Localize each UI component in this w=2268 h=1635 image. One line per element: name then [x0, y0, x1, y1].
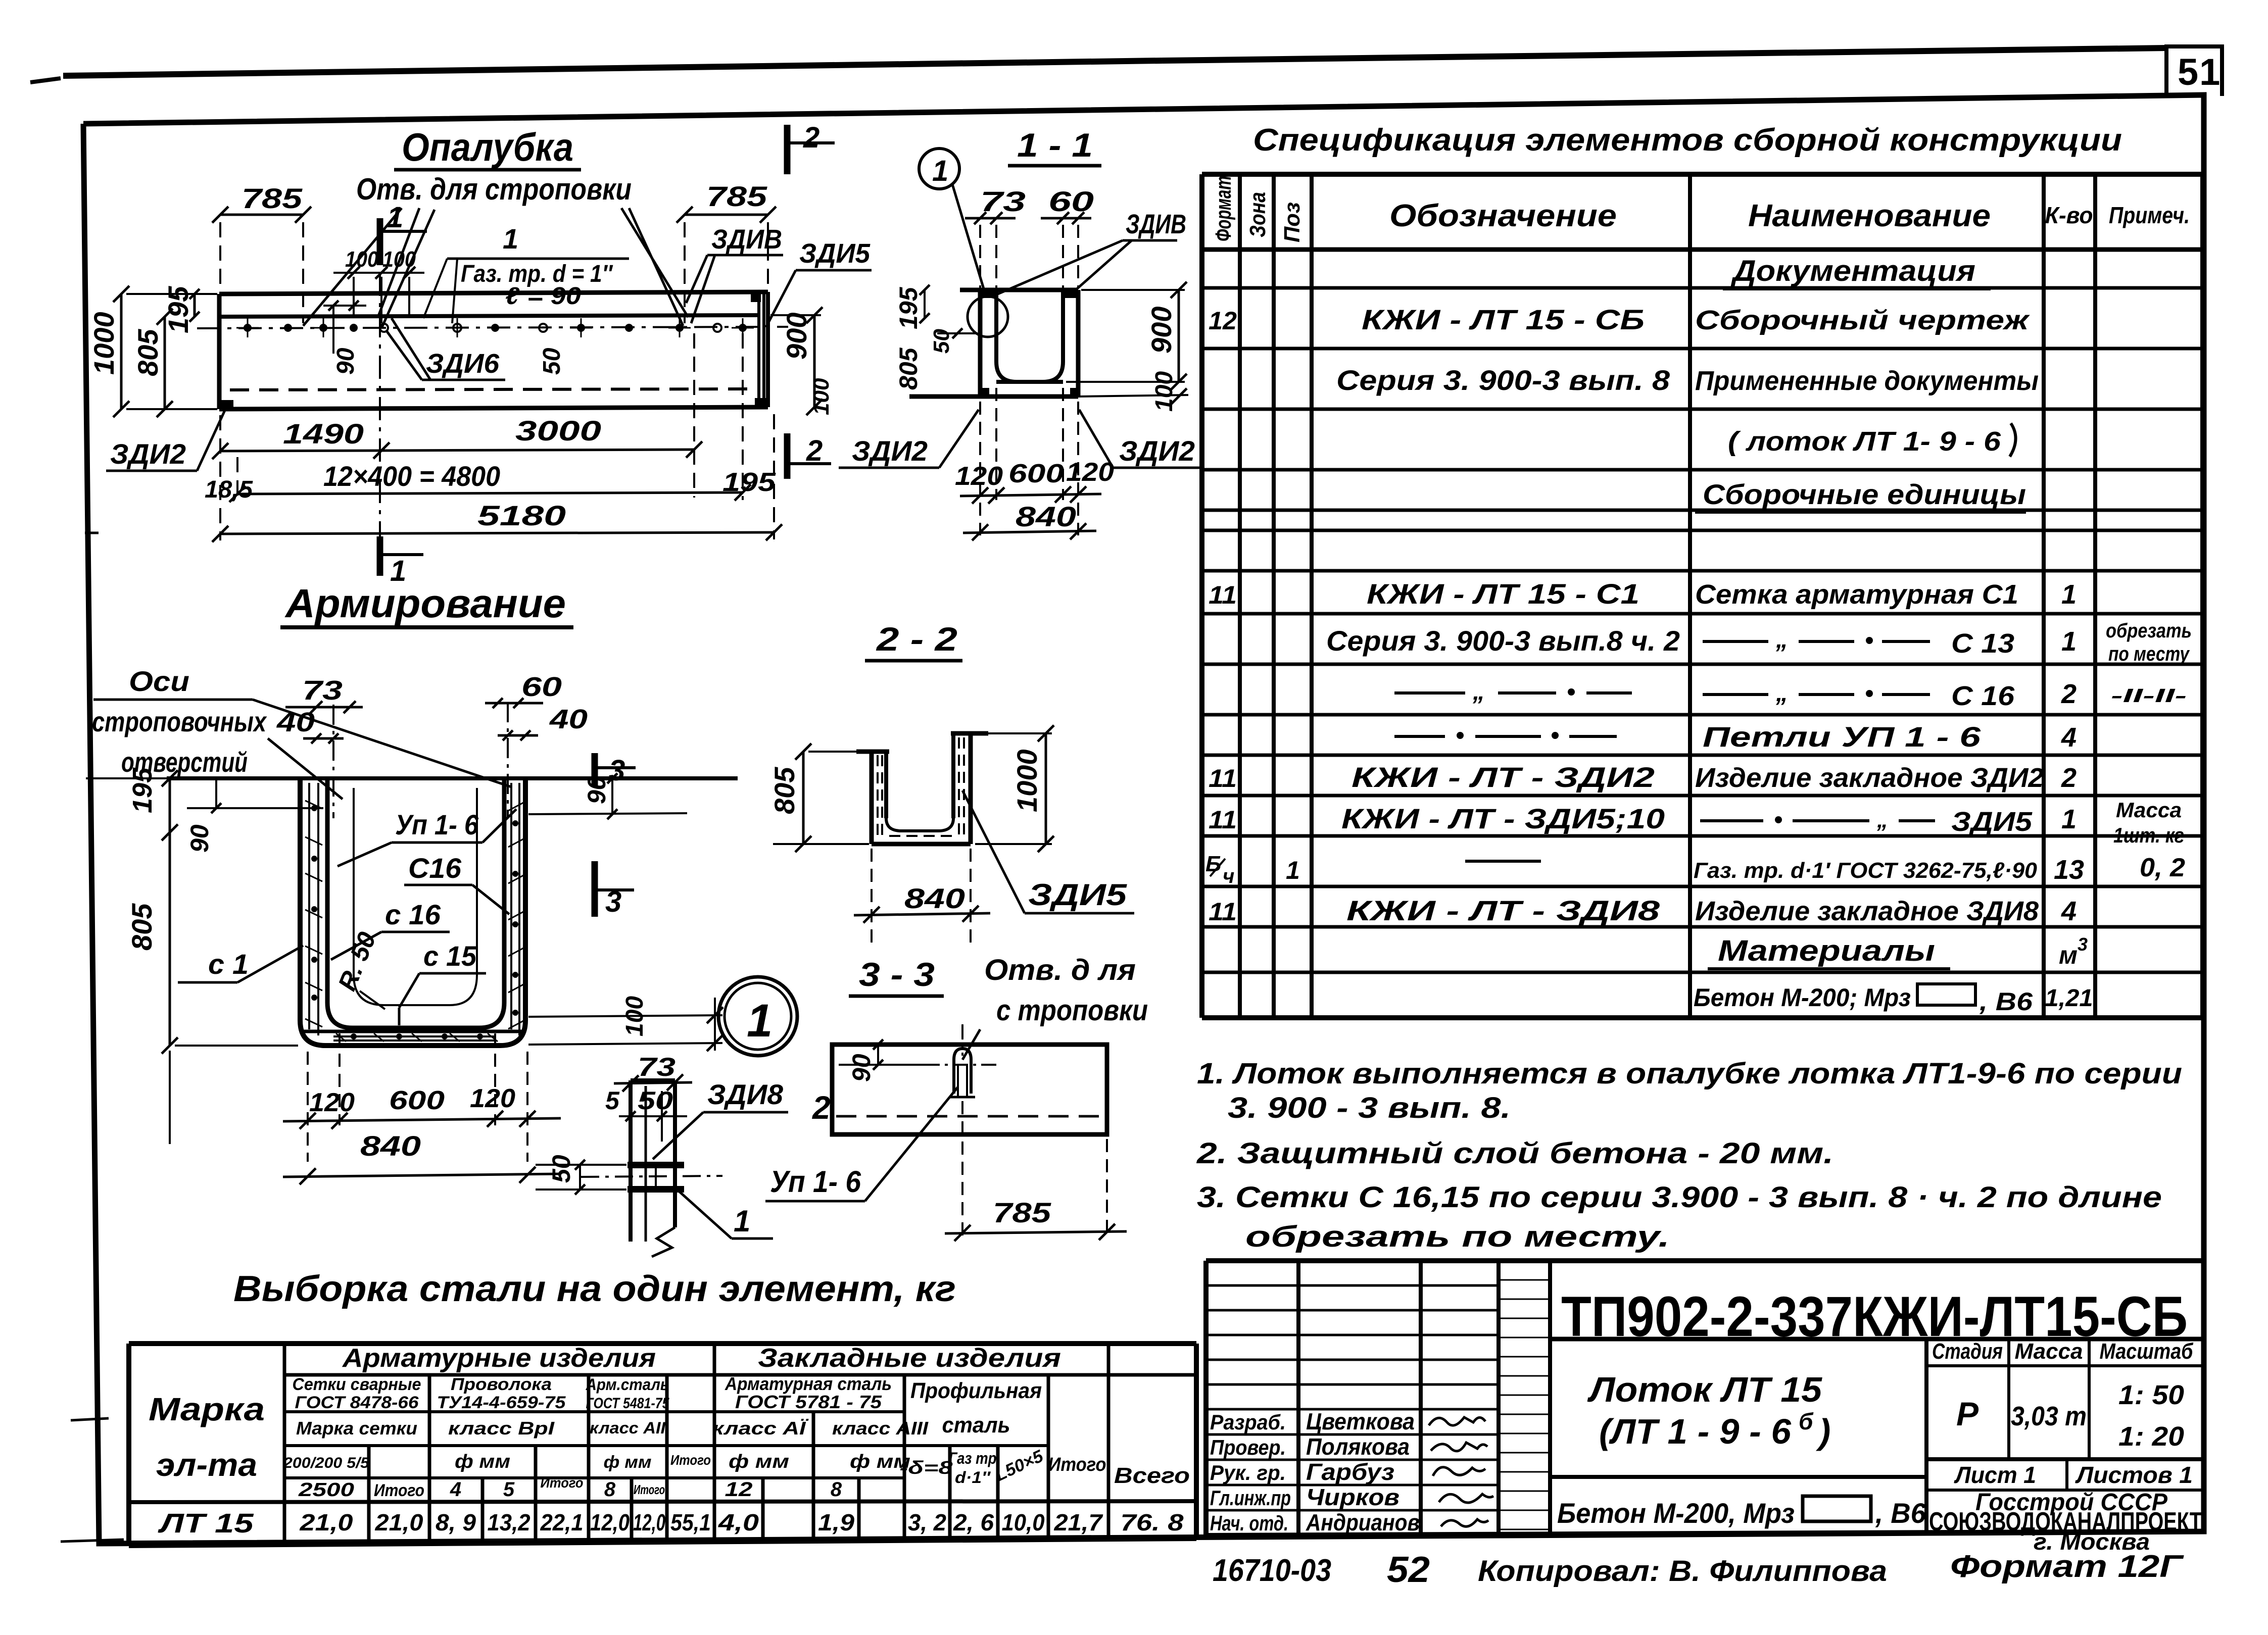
svg-text:11: 11 [1209, 581, 1237, 609]
label С16 with leader (arm) [404, 852, 509, 914]
svg-text:11: 11 [1209, 898, 1237, 926]
svg-text:1: 1 [387, 201, 403, 234]
embedded plate mark (right bottom of beam) [755, 398, 766, 407]
spec table column headers [1211, 176, 2190, 242]
svg-text:10,0: 10,0 [1002, 1509, 1045, 1535]
svg-text:Примененные документы: Примененные документы [1695, 366, 2039, 396]
svg-text:13,2: 13,2 [488, 1509, 530, 1535]
1-1 dimension 840 [963, 501, 1096, 540]
svg-text:Газ тр: Газ тр [949, 1449, 997, 1467]
small dim 50 (rotated, mid beam) [539, 348, 565, 375]
svg-text:2: 2 [2061, 679, 2077, 709]
svg-text:13: 13 [2054, 855, 2084, 885]
svg-text:Поз: Поз [1280, 202, 1305, 242]
steel table: sub headers row4 [283, 1446, 1190, 1488]
label ЗДИ2 left with leader (1-1) [839, 410, 979, 468]
svg-text:21,7: 21,7 [1053, 1509, 1103, 1535]
svg-text:12: 12 [1209, 307, 1237, 335]
svg-text:ЗДИ5: ЗДИ5 [1028, 878, 1128, 912]
svg-text:2 - 2: 2 - 2 [876, 620, 958, 658]
svg-text:Выборка стали на один элем: Выборка стали на один элемент, кг [233, 1269, 956, 1309]
svg-text:Р: Р [1956, 1395, 1979, 1432]
svg-text:1: 1 [503, 223, 518, 255]
svg-text:Всего: Всего [1114, 1463, 1190, 1488]
svg-text:Чирков: Чирков [1306, 1484, 1400, 1510]
dimension 60 (arm top right) [485, 672, 562, 708]
label R50 (arm) [332, 928, 385, 1009]
label ЗДИВ with two long leaders (1-1) [998, 209, 1186, 294]
svg-text:90: 90 [185, 824, 214, 853]
svg-text:51: 51 [2178, 51, 2221, 93]
svg-text:ЗДИ6: ЗДИ6 [426, 349, 500, 379]
svg-text:1,21: 1,21 [2045, 985, 2093, 1012]
svg-text:Формат 12Г: Формат 12Г [1950, 1549, 2185, 1584]
1-1 section outline (U channel) [909, 290, 1188, 397]
svg-text:ЗДИВ: ЗДИВ [1126, 209, 1186, 239]
svg-text:Изделие закладное ЗДИ8: Изделие закладное ЗДИ8 [1695, 896, 2039, 926]
svg-text:50: 50 [539, 348, 565, 375]
svg-text:195: 195 [894, 286, 923, 329]
section mark 3 (upper) [595, 753, 636, 787]
svg-text:Цветкова: Цветкова [1306, 1408, 1415, 1434]
svg-text:22,1: 22,1 [540, 1509, 584, 1535]
spec row: Материалы (underlined) м3 [1708, 934, 2088, 969]
svg-text:класс АЇ: класс АЇ [712, 1418, 809, 1439]
left vertical dimension 1000 [88, 286, 217, 417]
svg-text:840: 840 [904, 882, 965, 914]
svg-text:900: 900 [781, 313, 812, 360]
svg-text:1: 20: 1: 20 [2118, 1421, 2184, 1452]
svg-text:Андрианов: Андрианов [1306, 1509, 1420, 1535]
dimension 785 (right top) [677, 180, 776, 323]
svg-text:по месту: по месту [2108, 643, 2190, 665]
svg-text:ЗДИ2: ЗДИ2 [852, 435, 928, 467]
svg-text:Уп 1- 6: Уп 1- 6 [395, 809, 479, 840]
detail 1: centre line [581, 1176, 722, 1177]
svg-text:1,9: 1,9 [818, 1509, 854, 1535]
svg-text:С16: С16 [408, 852, 462, 884]
svg-text:Арм.сталь: Арм.сталь [586, 1375, 669, 1394]
detail balloon 1 (double circle) [718, 977, 797, 1056]
3-3 dim 90 [839, 1039, 935, 1082]
svg-text:1: 1 [1286, 856, 1300, 884]
svg-text:класс АІІ: класс АІІ [590, 1419, 666, 1437]
svg-text:ф мм: ф мм [604, 1453, 652, 1472]
svg-text:120: 120 [1066, 458, 1114, 487]
title block grid [1206, 1261, 2204, 1535]
2-2 dimension 840 [854, 849, 990, 945]
svg-text:805: 805 [768, 767, 800, 814]
svg-text:Итого: Итого [670, 1452, 711, 1468]
svg-text:-II-II-: -II-II- [2111, 685, 2187, 707]
svg-text:2, 6: 2, 6 [953, 1509, 994, 1535]
steel table: sub headers row3 [296, 1418, 929, 1439]
svg-text:К-во: К-во [2045, 202, 2093, 228]
svg-text:5: 5 [605, 1086, 620, 1115]
reinforcement section top edge line [167, 776, 738, 780]
svg-text:Арматурная сталь: Арматурная сталь [725, 1373, 892, 1394]
svg-text:ЛТ 15: ЛТ 15 [157, 1508, 254, 1539]
arm left dimension 195 [86, 767, 178, 840]
2-2 mesh dashed lines [878, 737, 964, 838]
steel table: sub headers row2 [293, 1373, 1042, 1438]
svg-text:„: „ [1775, 680, 1788, 707]
label Уп1-6 with leader (3-3) [765, 1087, 958, 1201]
label: pipe note 1 / Газ.тр.d=1 / l=90 [423, 223, 629, 323]
svg-text:16710-03: 16710-03 [1213, 1553, 1331, 1588]
svg-text:Итого: Итого [634, 1482, 665, 1497]
svg-text:Провер.: Провер. [1210, 1435, 1286, 1459]
svg-text:Профильная: Профильная [910, 1378, 1042, 1403]
svg-text:600: 600 [389, 1086, 445, 1115]
left vertical dimension 805 [132, 309, 173, 417]
svg-text:(ЛТ 1 - 9 - 6: (ЛТ 1 - 9 - 6 [1599, 1412, 1792, 1451]
svg-text:1. Лоток выполняется в опалу: 1. Лоток выполняется в опалубке лотка ЛТ… [1197, 1057, 2182, 1090]
small dim 90 (rotated, mid beam) [323, 283, 366, 375]
svg-text:Сетки сварные: Сетки сварные [293, 1375, 421, 1394]
dimension 60 (1-1 top right) [1041, 185, 1094, 288]
svg-text:Лист 1: Лист 1 [1954, 1462, 2036, 1488]
detail 1: leader 1 (bottom) [677, 1190, 773, 1238]
svg-text:3: 3 [605, 885, 621, 918]
1-1 right vertical dimension 100 [1151, 371, 1187, 412]
mesh hatch ticks [305, 801, 523, 1042]
svg-text:ТУ14-4-659-75: ТУ14-4-659-75 [437, 1393, 566, 1412]
svg-text:м: м [2059, 941, 2078, 969]
page number box 51 [2166, 46, 2222, 96]
svg-text:Оси: Оси [129, 665, 189, 697]
svg-text:Рук. гр.: Рук. гр. [1210, 1461, 1286, 1484]
svg-text:КЖИ - ЛТ 15 - СБ: КЖИ - ЛТ 15 - СБ [1362, 304, 1645, 335]
svg-text:, В6: , В6 [1875, 1497, 1926, 1529]
svg-text:1: 1 [2061, 579, 2077, 610]
svg-text:12×400 = 4800: 12×400 = 4800 [323, 460, 500, 492]
1-1 right vertical dimension 900 [1066, 282, 1187, 390]
svg-text:8: 8 [831, 1478, 842, 1501]
svg-text:3. Сетки С 16,15 по серии: 3. Сетки С 16,15 по серии 3.900 - 3 вып.… [1197, 1181, 2162, 1214]
svg-text:76. 8: 76. 8 [1121, 1509, 1184, 1535]
svg-text:ГОСТ 5781 - 75: ГОСТ 5781 - 75 [735, 1392, 882, 1412]
svg-text:3000: 3000 [515, 415, 601, 447]
svg-text:Газ. тр. d·1′ ГОСТ 3262-75,ℓ·9: Газ. тр. d·1′ ГОСТ 3262-75,ℓ·90 [1694, 858, 2038, 883]
title block: Бетон М-200,Мрз , В6 [1557, 1496, 1926, 1529]
svg-text:1: 1 [747, 995, 773, 1047]
svg-text:12,0: 12,0 [633, 1509, 665, 1535]
svg-text:100: 100 [345, 247, 378, 272]
label ЗДИ2 right with leader (1-1) [1079, 410, 1200, 468]
svg-text:18,5: 18,5 [205, 476, 253, 503]
svg-text:73: 73 [638, 1053, 675, 1082]
svg-text:Сборочные единицы: Сборочные единицы [1703, 478, 2026, 510]
bottom dimension line 5180 [212, 414, 782, 542]
svg-text:40: 40 [549, 704, 588, 734]
svg-text:11: 11 [1209, 806, 1237, 834]
svg-text:обрезать по месту.: обрезать по месту. [1245, 1220, 1670, 1253]
svg-text:ч: ч [1223, 865, 1234, 887]
label Уп1-6 with leaders (arm) [337, 809, 516, 866]
svg-text:785: 785 [706, 180, 767, 212]
svg-text:Спецификация элементов сборн: Спецификация элементов сборной конструкц… [1253, 123, 2122, 158]
svg-text:ТП902-2-337КЖИ-ЛТ15-СБ: ТП902-2-337КЖИ-ЛТ15-СБ [1561, 1285, 2188, 1348]
title block: column labels [1210, 1410, 1291, 1535]
svg-text:1: 1 [2061, 804, 2077, 834]
3-3 dimension 785 [945, 1101, 1127, 1241]
spec row: Документация (underlined) [1723, 255, 1991, 289]
bottom dimension line 1490 / 3000 [212, 333, 776, 540]
svg-text:21,0: 21,0 [374, 1509, 423, 1535]
svg-text:c 1: c 1 [208, 948, 249, 980]
svg-text:3, 2: 3, 2 [908, 1509, 946, 1535]
svg-text:класс ВрІ: класс ВрІ [448, 1418, 555, 1439]
svg-text:2. Защитный слой бетона -: 2. Защитный слой бетона - 20 мм. [1196, 1137, 1833, 1170]
dimension 100 100 (top middle) [333, 247, 424, 323]
detail 1: embedded plate bars [628, 1162, 684, 1193]
svg-text:40: 40 [276, 707, 315, 737]
svg-text:ф мм: ф мм [729, 1451, 789, 1472]
leader lines to lifting holes [303, 208, 688, 328]
svg-text:КЖИ - ЛТ - ЗДИ2: КЖИ - ЛТ - ЗДИ2 [1352, 761, 1655, 793]
label ЗДИБ (below centre line) [387, 318, 505, 380]
svg-text:1: 1 [932, 155, 948, 187]
top scan border line [30, 48, 2165, 82]
dimension 73 (arm top left) [285, 675, 363, 713]
svg-text:ЗДИВ: ЗДИВ [711, 224, 782, 255]
1-1 left small dims 195 805 50 [894, 285, 978, 390]
svg-text:52: 52 [1387, 1550, 1430, 1590]
svg-text:Итого: Итого [1048, 1454, 1106, 1475]
svg-text:4: 4 [2061, 896, 2077, 926]
2-2 right dimension 1000 [975, 725, 1054, 852]
svg-text:ℓ = 90: ℓ = 90 [505, 283, 581, 310]
spec row: Бетон М-200 Мрз В6 1.21 [1694, 983, 2093, 1016]
svg-text:2: 2 [803, 121, 819, 154]
svg-text:805: 805 [132, 329, 164, 376]
svg-text:50: 50 [638, 1086, 673, 1115]
detail balloon 1 (callout circle) [919, 148, 984, 290]
svg-text:Документация: Документация [1730, 255, 1975, 287]
svg-text:90: 90 [847, 1054, 876, 1082]
steel table grid [129, 1344, 1196, 1546]
svg-text:805: 805 [894, 347, 923, 390]
dimension 73 (1-1 top left) [965, 185, 1026, 288]
svg-text:Гарбуз: Гарбуз [1306, 1459, 1394, 1485]
svg-text:50: 50 [547, 1155, 575, 1183]
svg-text:Формат: Формат [1211, 176, 1236, 241]
arm small dim 90 (right) [528, 773, 687, 819]
svg-text:8, 9: 8, 9 [436, 1509, 476, 1535]
svg-text:3 - 3: 3 - 3 [859, 956, 935, 993]
svg-text:4: 4 [2061, 722, 2077, 753]
svg-text:Разраб.: Разраб. [1210, 1410, 1286, 1434]
svg-text:840: 840 [1016, 501, 1076, 532]
svg-text:Бетон М-200; Мрз: Бетон М-200; Мрз [1694, 983, 1911, 1012]
label ЗДИ5 with leader (2-2) [962, 790, 1134, 913]
3-3 plate outline [832, 1045, 1107, 1134]
svg-text:3. 900 - 3 вып. 8.: 3. 900 - 3 вып. 8. [1228, 1092, 1511, 1124]
svg-text:-δ=8: -δ=8 [900, 1457, 953, 1478]
rebar dots in walls [311, 805, 518, 1039]
svg-text:60: 60 [1048, 185, 1094, 217]
svg-text:Итого: Итого [541, 1475, 584, 1491]
svg-text:3,03 т: 3,03 т [2011, 1401, 2087, 1431]
spec table grid [1202, 174, 2203, 1018]
svg-text:Уп 1- 6: Уп 1- 6 [770, 1165, 861, 1199]
svg-text:Листов 1: Листов 1 [2075, 1462, 2193, 1488]
svg-text:5180: 5180 [477, 500, 566, 531]
svg-text:Наименование: Наименование [1748, 199, 1991, 233]
embedded plate ЗДИВ (right top, filled) [751, 294, 761, 302]
1-1 embedded plates (filled) [980, 290, 1078, 397]
svg-text:785: 785 [993, 1197, 1051, 1228]
dimension 40 (arm top left) [276, 707, 344, 744]
svg-text:Опалубка: Опалубка [402, 125, 573, 169]
label: Отв. для строповки [356, 172, 632, 207]
svg-text:КЖИ - ЛТ - ЗДИ8: КЖИ - ЛТ - ЗДИ8 [1346, 895, 1660, 926]
svg-text:Лоток ЛТ 15: Лоток ЛТ 15 [1587, 1370, 1822, 1409]
beam hidden bottom line (dashed) [230, 389, 757, 390]
svg-text:Марка: Марка [149, 1391, 265, 1427]
view title: Опалубка [394, 125, 581, 170]
spec row: (лоток ЛТ 1-9-6) [1728, 423, 2016, 457]
svg-text:3: 3 [2078, 934, 2088, 955]
svg-text:0, 2: 0, 2 [2140, 853, 2185, 882]
bottom dimension line 12x400=4800 [205, 333, 751, 503]
svg-text:3: 3 [609, 754, 625, 787]
arm dimension 840 [283, 1130, 561, 1184]
svg-text:ЗДИ5: ЗДИ5 [799, 238, 871, 269]
lifting holes along centre line [236, 318, 754, 337]
svg-text:обрезать: обрезать [2106, 620, 2192, 642]
svg-text:2: 2 [806, 434, 823, 467]
svg-text:Примеч.: Примеч. [2109, 202, 2190, 228]
detail 1: label ЗДИ8 with leader [653, 1078, 788, 1159]
svg-text:С 13: С 13 [1951, 628, 2014, 659]
svg-text:Марка сетки: Марка сетки [296, 1418, 417, 1439]
svg-text:Масса: Масса [2015, 1339, 2083, 1364]
label ЗДИ5 (right) [766, 238, 872, 327]
svg-text:12,0: 12,0 [590, 1509, 630, 1535]
steel table: section headers [342, 1344, 1061, 1373]
svg-text:( лоток ЛТ 1- 9 - 6: ( лоток ЛТ 1- 9 - 6 [1728, 426, 2001, 457]
svg-text:1: 1 [734, 1204, 750, 1238]
svg-text:строповочных: строповочных [92, 706, 267, 737]
svg-text:сталь: сталь [942, 1413, 1010, 1438]
svg-text:Закладные изделия: Закладные изделия [758, 1344, 1061, 1373]
svg-text:Отв. д ля: Отв. д ля [984, 954, 1136, 986]
svg-text:1: 1 [2061, 626, 2077, 657]
svg-text:Стадия: Стадия [1932, 1339, 2003, 1364]
svg-text:Арматурные изделия: Арматурные изделия [342, 1344, 656, 1373]
section mark 2 (top) [787, 121, 835, 174]
svg-text:1шт. кг: 1шт. кг [2113, 823, 2184, 847]
label c1 with leader (arm) [178, 946, 303, 982]
svg-text:ГОСТ 5481-75: ГОСТ 5481-75 [586, 1395, 670, 1412]
svg-text:90: 90 [332, 348, 359, 375]
svg-text:2: 2 [812, 1089, 831, 1126]
svg-text:100: 100 [809, 378, 834, 415]
svg-text:d·1″: d·1″ [955, 1468, 991, 1487]
svg-text:805: 805 [126, 903, 158, 951]
svg-text:55,1: 55,1 [670, 1509, 711, 1535]
svg-text:120: 120 [470, 1084, 515, 1113]
svg-text:б: б [1799, 1408, 1814, 1434]
title block: stage mass scale values [1956, 1380, 2184, 1452]
svg-text:1 - 1: 1 - 1 [1017, 126, 1093, 164]
svg-text:эл-та: эл-та [156, 1447, 257, 1483]
right vertical dimension 100 [809, 378, 834, 415]
spec row: С16 2 [1394, 678, 2187, 711]
arm small dim 90 (left) [185, 778, 323, 853]
title block: Стадия Масса Масштаб headers [1932, 1339, 2194, 1364]
spec row: Серия 3.900-3 вып.8 ч.2 / С13 1 обрезать по месту [1326, 620, 2192, 665]
svg-text:Зона: Зона [1245, 192, 1270, 237]
detail 1: dims 5 and 50 [605, 1086, 687, 1142]
title block: Лист 1 Листов 1 [1954, 1462, 2193, 1488]
label ЗДИ2 with leader (left) [106, 407, 226, 471]
svg-text:4,0: 4,0 [718, 1509, 759, 1535]
svg-text:1000: 1000 [1011, 749, 1043, 812]
svg-text:Бетон М-200, Мрз: Бетон М-200, Мрз [1557, 1497, 1795, 1529]
arm right small dims 100 / ticks [528, 996, 723, 1051]
svg-text:Нач. отд.: Нач. отд. [1210, 1511, 1288, 1535]
view title: 3-3 [849, 956, 944, 996]
reinforcement section walls [300, 778, 525, 1046]
label: Отв. для строповки (3-3) [962, 954, 1148, 1060]
svg-text:класс АІІІ: класс АІІІ [832, 1418, 929, 1439]
title block: names [1306, 1408, 1420, 1535]
1-1 dimension 120 600 120 [955, 388, 1114, 535]
section mark 1 (bottom) [380, 536, 423, 587]
svg-text:„: „ [1775, 626, 1788, 653]
embedded plate ЗДИ2 (left bottom, filled) [220, 400, 233, 409]
svg-text:5: 5 [503, 1478, 515, 1501]
svg-text:ЗДИ2: ЗДИ2 [1119, 435, 1195, 467]
dimension 40 (arm top right) [498, 704, 588, 740]
svg-text:900: 900 [1145, 307, 1177, 354]
label с15 with leader (arm) [399, 940, 486, 1025]
section mark 1 (top) [380, 201, 427, 265]
dimension 785 (left top) [212, 182, 311, 323]
section mark 3 (lower) [595, 861, 634, 918]
svg-text:12: 12 [725, 1478, 753, 1501]
svg-text:Проволока: Проволока [451, 1375, 552, 1394]
svg-text:100: 100 [1151, 371, 1178, 412]
svg-text:Сетка арматурная С1: Сетка арматурная С1 [1695, 579, 2018, 610]
svg-text:785: 785 [242, 182, 303, 214]
label: Оси строповочных отверстий [92, 665, 511, 799]
svg-text:КЖИ - ЛТ - ЗДИ5;10: КЖИ - ЛТ - ЗДИ5;10 [1341, 803, 1665, 834]
title block: signatures (squiggles) [1429, 1417, 1493, 1526]
steel table: values row ЛТ 15 [157, 1508, 1184, 1539]
svg-text:Масштаб: Масштаб [2100, 1339, 2194, 1364]
svg-text:195: 195 [127, 767, 158, 813]
section cut line 1 (dash-dot) [379, 273, 381, 573]
svg-text:1: 50: 1: 50 [2118, 1380, 2184, 1410]
svg-text:60: 60 [521, 672, 562, 702]
left vertical dimension 195 [162, 286, 200, 333]
svg-text:1000: 1000 [88, 312, 120, 375]
svg-text:„: „ [1876, 808, 1888, 832]
svg-text:Изделие закладное ЗДИ2: Изделие закладное ЗДИ2 [1695, 763, 2044, 793]
svg-text:1490: 1490 [283, 418, 364, 450]
spec row: Б/ч 1 Газ.тр.d=1 ГОСТ 3262-75 13 0.2 [1205, 852, 2185, 887]
svg-text:Копировал: В. Филиппова: Копировал: В. Филиппова [1478, 1555, 1887, 1588]
svg-text:ЗДИ8: ЗДИ8 [707, 1078, 784, 1110]
svg-text:50: 50 [929, 329, 954, 354]
detail 1: wall strip outline [631, 1080, 675, 1257]
svg-text:Гл.инж.пр: Гл.инж.пр [1210, 1486, 1291, 1510]
svg-text:2500: 2500 [298, 1479, 354, 1501]
